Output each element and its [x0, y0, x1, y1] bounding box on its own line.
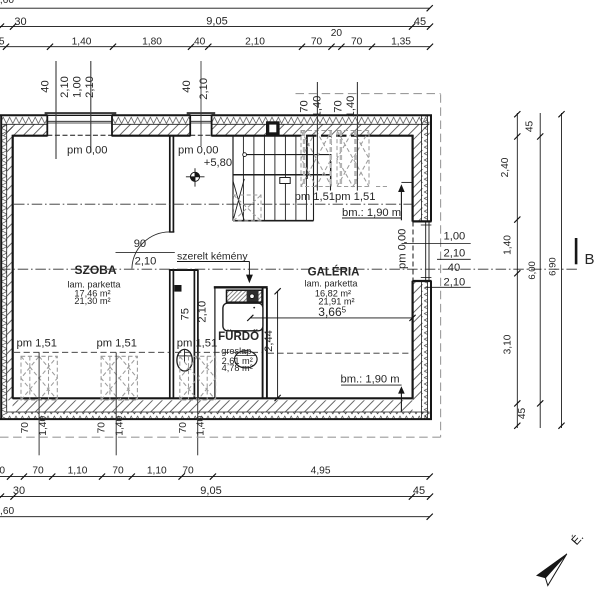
window W1 top wall	[45, 112, 117, 136]
bottom dimension row C	[0, 506, 433, 520]
roof window frame verticals (light gray)	[304, 131, 355, 186]
svg-text:1,40: 1,40	[72, 37, 92, 48]
staircase	[233, 136, 332, 221]
carriers for roof window dims	[316, 82, 318, 191]
svg-text:1,40: 1,40	[38, 416, 49, 436]
svg-text:1,35: 1,35	[391, 37, 411, 48]
svg-text:70: 70	[332, 100, 344, 112]
inner wall lines	[13, 135, 413, 399]
svg-text:pm 0,00: pm 0,00	[67, 145, 107, 157]
svg-text:40: 40	[181, 80, 193, 92]
svg-text:2,10: 2,10	[197, 301, 209, 323]
svg-text:bm.: 1,90 m: bm.: 1,90 m	[341, 374, 400, 386]
north arrow	[537, 529, 586, 585]
svg-text:2,10: 2,10	[198, 78, 210, 100]
rotated window dim labels group2	[181, 61, 210, 146]
wall hatching	[2, 116, 430, 419]
top dimension row 1 (overall, clipped)	[0, 0, 433, 11]
svg-text:75: 75	[180, 308, 192, 320]
svg-text:70: 70	[351, 37, 363, 48]
svg-text:45: 45	[414, 16, 426, 28]
svg-text:70: 70	[20, 422, 31, 434]
svg-text:45: 45	[413, 485, 425, 497]
svg-text:pm 1,51: pm 1,51	[97, 338, 137, 350]
interior wall W2 below door	[169, 270, 199, 399]
svg-text:1,40: 1,40	[502, 235, 513, 255]
rotated roof window dim labels group3	[299, 96, 358, 118]
svg-text:pm 1,51: pm 1,51	[295, 191, 335, 203]
2,44 dim line	[277, 291, 279, 398]
svg-text:70: 70	[311, 37, 323, 48]
interior wall W3 wc/bath	[194, 270, 198, 399]
svg-text:2,10: 2,10	[444, 247, 466, 259]
chimney block	[227, 290, 263, 302]
dashed bm lines	[0, 204, 577, 353]
svg-text:pm 0,00: pm 0,00	[396, 229, 408, 269]
svg-text:1,00: 1,00	[444, 231, 466, 243]
bathroom walls	[214, 287, 268, 399]
outer wall lines	[0, 115, 432, 420]
svg-text:9,60: 9,60	[0, 506, 15, 517]
svg-text:1,40: 1,40	[345, 96, 357, 118]
svg-text:B: B	[585, 251, 595, 268]
svg-text:2,44: 2,44	[263, 330, 275, 352]
svg-text:90: 90	[134, 238, 146, 250]
svg-text:1,40: 1,40	[312, 96, 324, 118]
interior wall W1 szoba/hall	[169, 136, 174, 233]
roof windows top (galeria ceiling)	[301, 131, 389, 187]
svg-text:2,10: 2,10	[444, 276, 466, 288]
3,66 dim line	[250, 317, 412, 319]
svg-text:45: 45	[517, 408, 528, 420]
section mark B	[576, 238, 594, 268]
svg-text:45: 45	[525, 121, 536, 133]
bottom window carriers	[38, 353, 40, 456]
svg-text:szerelt kémény: szerelt kémény	[177, 250, 248, 262]
svg-text:É.: É.	[568, 529, 587, 547]
svg-text:40: 40	[448, 262, 460, 274]
svg-text:pm 1,51: pm 1,51	[17, 338, 57, 350]
door dim line	[116, 251, 175, 253]
svg-text:9,60: 9,60	[0, 0, 14, 6]
svg-text:1,80: 1,80	[142, 37, 162, 48]
svg-text:4,95: 4,95	[311, 466, 331, 477]
svg-text:45: 45	[0, 37, 5, 48]
bottom dimension row A	[0, 466, 433, 480]
top dimension row 2	[0, 16, 433, 30]
svg-text:40: 40	[194, 37, 206, 48]
svg-text:30: 30	[13, 485, 25, 497]
svg-text:1,40: 1,40	[195, 416, 206, 436]
svg-text:40: 40	[39, 80, 51, 92]
svg-text:lam. parketta: lam. parketta	[304, 279, 358, 289]
galeria bm arrows	[341, 182, 412, 411]
svg-text:pm 1,51: pm 1,51	[335, 191, 375, 203]
svg-text:SZOBA: SZOBA	[75, 263, 117, 277]
svg-text:pm 0,00: pm 0,00	[178, 145, 218, 157]
svg-text:9,05: 9,05	[200, 485, 221, 497]
svg-text:2,10: 2,10	[135, 255, 157, 267]
svg-text:2,10: 2,10	[84, 76, 96, 98]
window heads dashed	[47, 134, 112, 136]
svg-text:4,78 m²: 4,78 m²	[222, 363, 253, 373]
svg-text:6,00: 6,00	[527, 261, 538, 280]
WC	[177, 349, 192, 371]
svg-text:70: 70	[299, 100, 311, 112]
benchmark symbol +5.80	[186, 168, 205, 186]
svg-text:9,05: 9,05	[206, 16, 227, 28]
bathtub	[223, 303, 263, 331]
svg-text:2,10: 2,10	[245, 37, 265, 48]
door 90 arc	[132, 232, 170, 269]
svg-text:70: 70	[178, 422, 189, 434]
svg-text:20: 20	[331, 28, 343, 39]
stair roof window dashed box	[234, 195, 262, 221]
svg-text:21,30 m²: 21,30 m²	[74, 296, 110, 306]
szerelt kemeny label	[177, 250, 250, 262]
svg-text:GALÉRIA: GALÉRIA	[308, 265, 360, 278]
svg-text:greslap: greslap	[221, 346, 251, 356]
roof overhang dashed	[0, 94, 441, 438]
svg-text:6,90: 6,90	[547, 257, 558, 276]
svg-text:2,10: 2,10	[59, 76, 71, 98]
svg-text:70: 70	[97, 422, 108, 434]
svg-text:3,10: 3,10	[502, 334, 513, 354]
right wall window labels	[396, 229, 470, 289]
svg-text:1,10: 1,10	[0, 466, 5, 477]
svg-text:bm.: 1,90 m: bm.: 1,90 m	[342, 207, 401, 219]
bottom rotated window labels	[20, 416, 206, 436]
svg-text:2,40: 2,40	[500, 157, 511, 177]
bottom dimension row B	[0, 485, 433, 500]
rotated window dim labels group1	[39, 61, 96, 159]
chimney box on top wall	[266, 121, 280, 135]
right dimension chain	[500, 111, 565, 429]
window right wall	[412, 221, 431, 281]
svg-text:1,00: 1,00	[71, 76, 83, 98]
svg-text:30: 30	[14, 16, 26, 28]
roof windows bottom (szoba)	[21, 356, 216, 400]
svg-text:70: 70	[32, 466, 44, 477]
svg-text:FÜRDŐ: FÜRDŐ	[218, 330, 259, 343]
svg-text:1,10: 1,10	[147, 466, 167, 477]
svg-text:1,40: 1,40	[114, 416, 125, 436]
svg-text:70: 70	[182, 466, 194, 477]
washbasin	[235, 351, 258, 368]
top dimension row 3	[0, 28, 433, 50]
svg-text:pm 1,51: pm 1,51	[177, 338, 217, 350]
band boundary thin lines	[2, 116, 430, 418]
svg-text:3,665: 3,665	[318, 305, 346, 319]
svg-text:70: 70	[112, 466, 124, 477]
svg-text:+5,80: +5,80	[204, 157, 232, 169]
svg-text:1,10: 1,10	[68, 466, 88, 477]
window W2 top wall	[187, 112, 216, 136]
chimney leader arrow	[246, 262, 253, 284]
